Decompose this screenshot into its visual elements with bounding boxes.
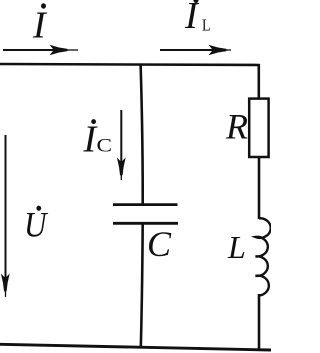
label R <box>225 107 248 147</box>
wire: resistor to inductor <box>258 157 261 219</box>
wire: right branch from top wire to resistor <box>257 64 260 100</box>
svg-text:C: C <box>147 224 172 264</box>
current arrow I_C (middle, pointing down) <box>117 110 126 180</box>
svg-text:I: I <box>184 0 200 37</box>
svg-text:L: L <box>202 16 211 35</box>
label L <box>227 229 246 265</box>
wire: middle branch, top wire down to capacitor <box>141 64 143 206</box>
label I_C (dot above, subscript C) <box>83 119 113 161</box>
capacitor C top plate <box>113 203 178 206</box>
svg-text:R: R <box>225 107 248 147</box>
label C <box>147 224 172 264</box>
label I (dot above) <box>32 3 48 46</box>
current arrow I (top left, pointing right) <box>3 45 78 56</box>
svg-text:U: U <box>24 205 48 245</box>
inductor L (4 right-bulging loops) <box>256 218 271 295</box>
svg-text:C: C <box>97 136 113 157</box>
resistor R <box>249 99 268 157</box>
current arrow I_L (top right, pointing right) <box>160 45 231 56</box>
svg-text:I: I <box>32 5 48 47</box>
svg-text:L: L <box>227 229 246 265</box>
wire: inductor to bottom wire <box>258 294 261 350</box>
label U (dot above) <box>24 205 48 245</box>
capacitor C bottom plate <box>113 222 178 225</box>
label I_L (dot above, subscript L) <box>184 0 211 37</box>
wire: top horizontal conductor <box>0 64 260 65</box>
wire: bottom horizontal conductor <box>0 344 271 350</box>
voltage arrow U (left, pointing down) <box>1 135 10 297</box>
wire: capacitor to bottom wire <box>141 223 143 349</box>
